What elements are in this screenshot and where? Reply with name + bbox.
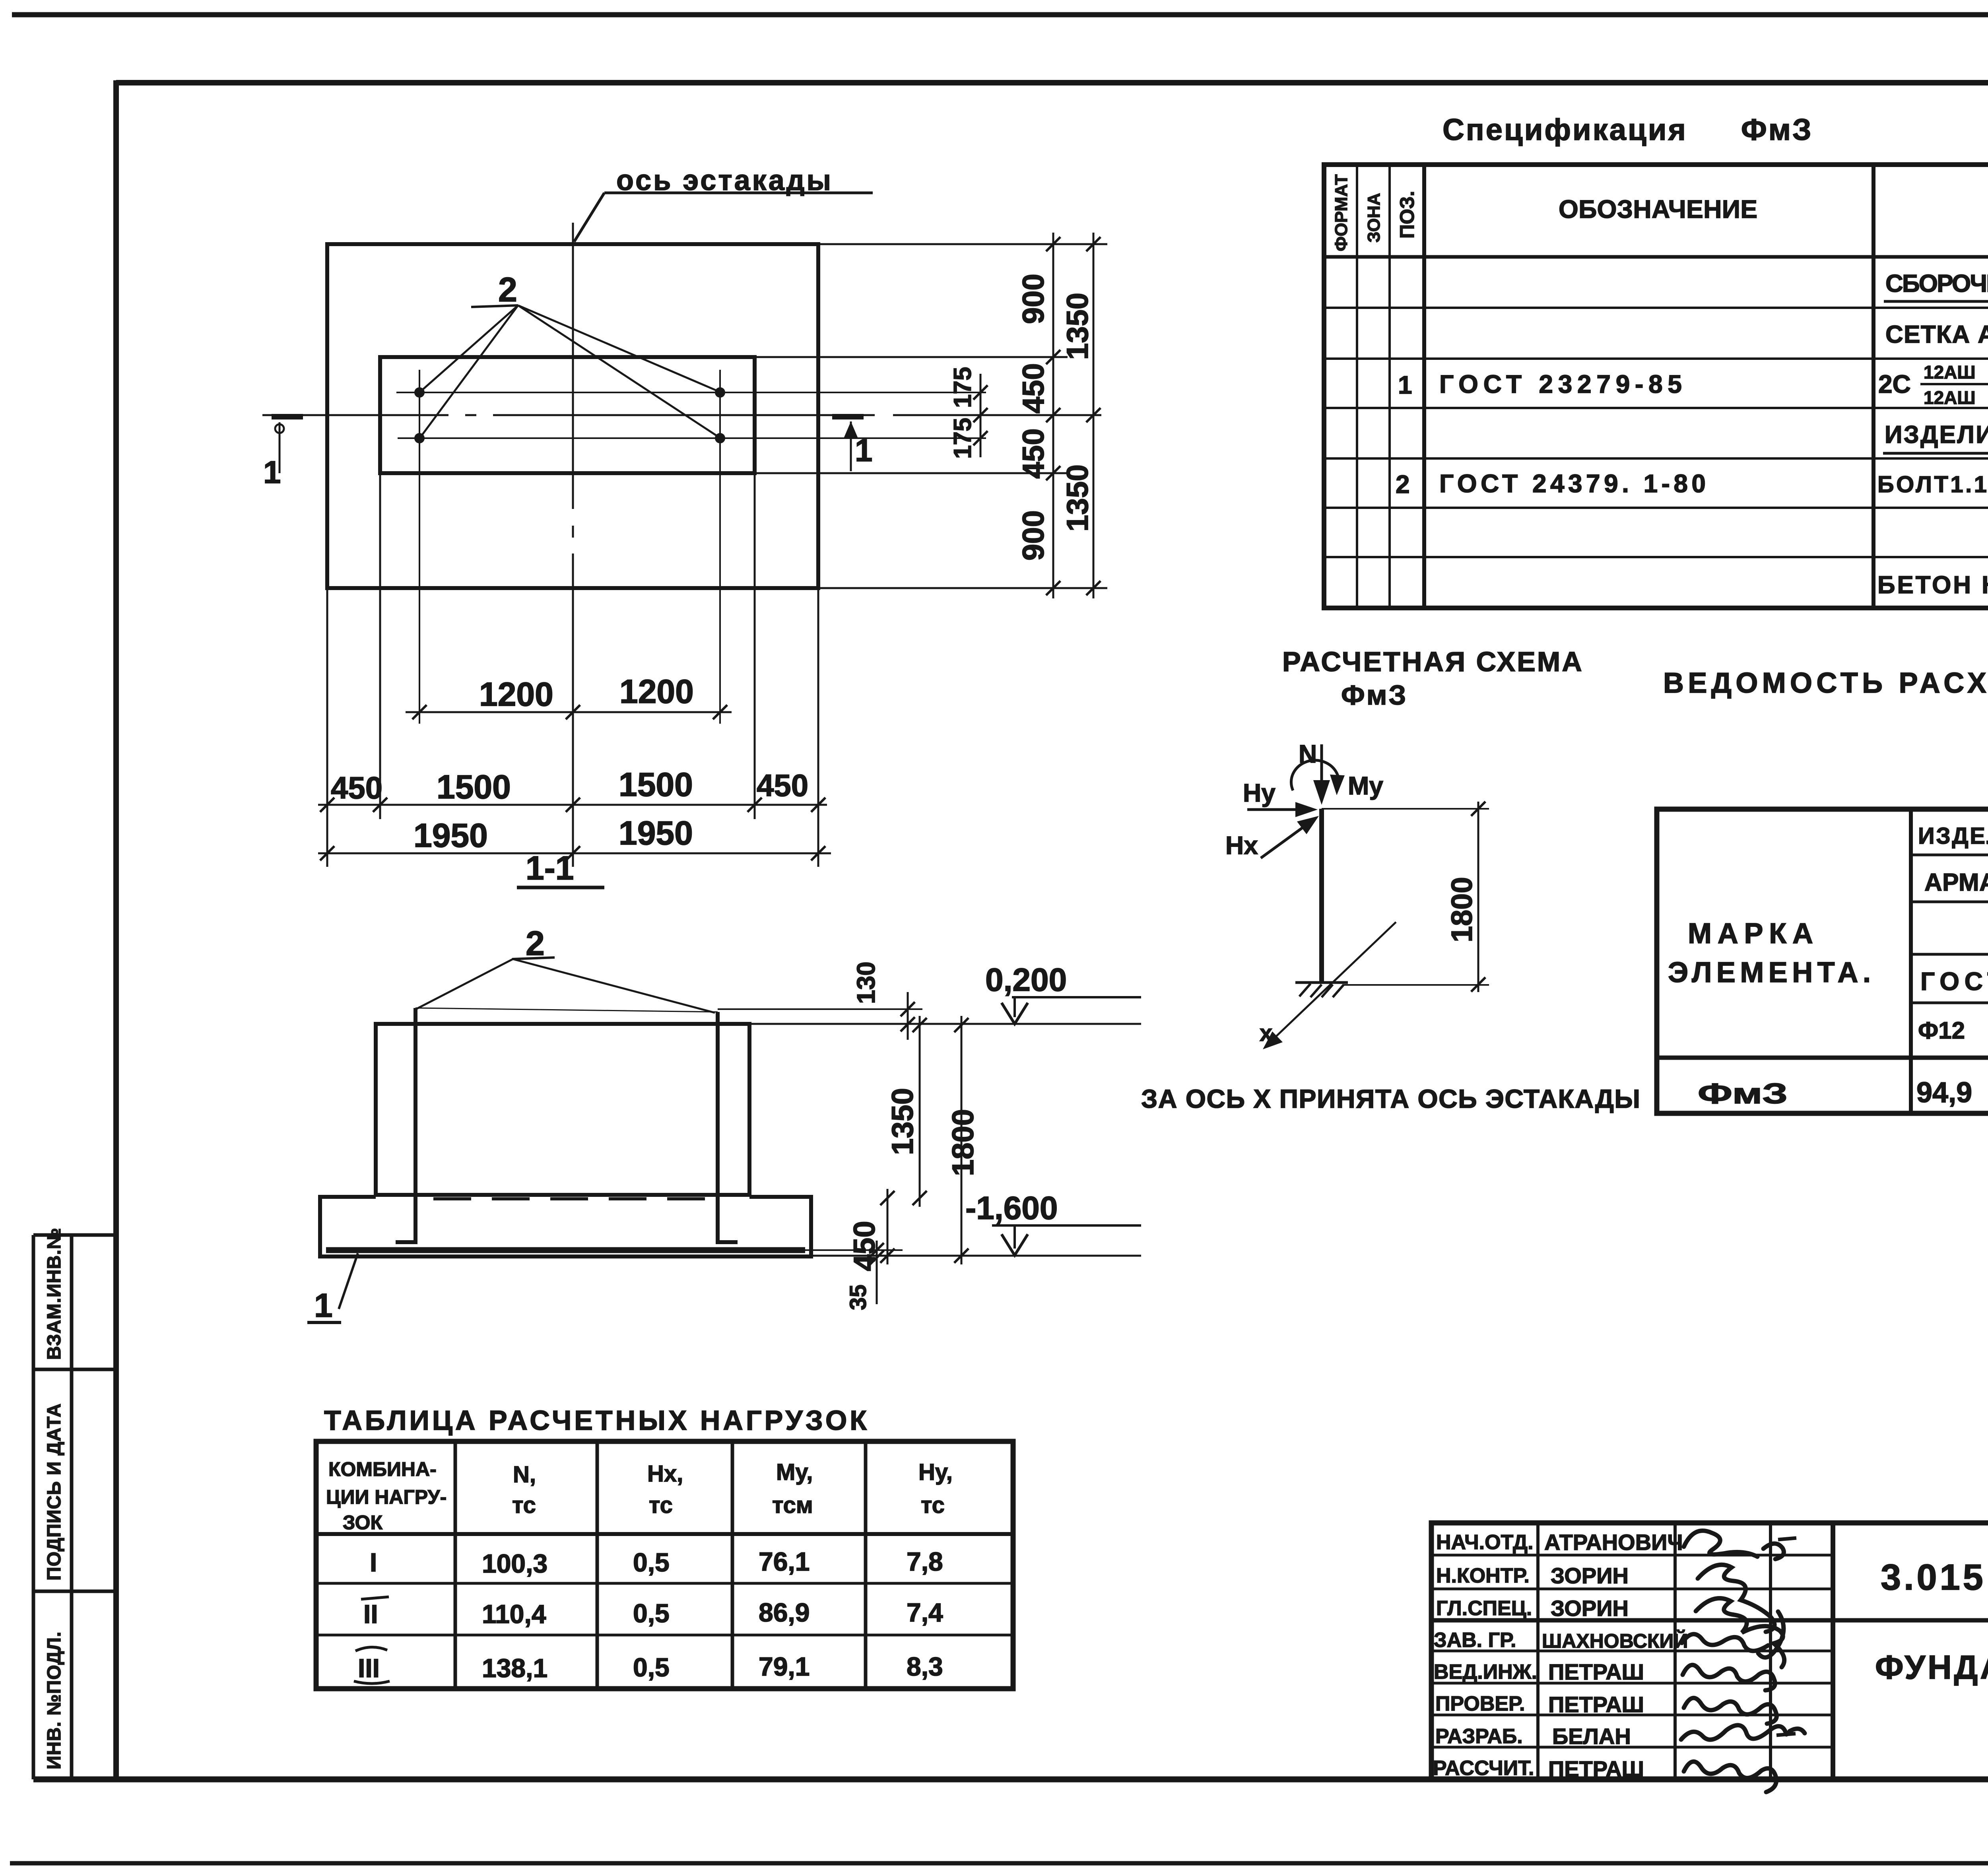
column head: Марка элемента <box>1668 918 1871 988</box>
svg-text:ОБОЗНАЧЕНИЕ: ОБОЗНАЧЕНИЕ <box>1559 195 1757 223</box>
svg-text:ЗОРИН: ЗОРИН <box>1551 1563 1629 1588</box>
svg-text:НАЧ.ОТД.: НАЧ.ОТД. <box>1436 1531 1534 1554</box>
svg-text:1: 1 <box>263 454 281 490</box>
column (cantilever) <box>1319 809 1324 983</box>
svg-text:ТАБЛИЦА РАСЧЕТНЫХ НАГРУЗОК: ТАБЛИЦА РАСЧЕТНЫХ НАГРУЗОК <box>324 1405 867 1436</box>
svg-text:ВЕД.ИНЖ.: ВЕД.ИНЖ. <box>1434 1660 1537 1684</box>
dim 1350 (section) <box>919 1016 921 1207</box>
force Ну arrow <box>1247 808 1306 811</box>
svg-text:РАСЧЕТНАЯ СХЕМА: РАСЧЕТНАЯ СХЕМА <box>1282 646 1584 677</box>
svg-text:тс: тс <box>649 1492 673 1518</box>
svg-text:ПЕТРАШ: ПЕТРАШ <box>1548 1692 1644 1717</box>
dash marks in date column <box>1778 1538 1796 1540</box>
x axis diagonal <box>1268 922 1396 1044</box>
svg-text:Н.КОНТР.: Н.КОНТР. <box>1436 1564 1530 1587</box>
svg-text:450: 450 <box>757 768 808 803</box>
svg-text:ПОДПИСЬ И ДАТА: ПОДПИСЬ И ДАТА <box>44 1403 65 1581</box>
right side extension lines <box>818 243 1107 245</box>
svg-text:ФмЗ: ФмЗ <box>1698 1078 1788 1110</box>
svg-text:I: I <box>370 1548 377 1577</box>
svg-text:12АШ: 12АШ <box>1924 362 1976 383</box>
svg-text:тсм: тсм <box>772 1492 813 1518</box>
thin line between bolt tops <box>415 1008 718 1012</box>
force Нх arrow <box>1261 825 1306 858</box>
svg-text:1350: 1350 <box>886 1088 920 1155</box>
svg-text:ВЗАМ.ИНВ.№: ВЗАМ.ИНВ.№ <box>44 1227 65 1360</box>
svg-text:0,5: 0,5 <box>633 1653 670 1682</box>
dim line 450 1500 1500 450 <box>318 804 827 806</box>
row: poz 2 ГОСТ 24379.1-80 <box>1396 468 1988 499</box>
svg-text:ШАХНОВСКИЙ: ШАХНОВСКИЙ <box>1542 1629 1688 1652</box>
svg-text:8,3: 8,3 <box>907 1652 943 1681</box>
horizontal lines header <box>1911 854 1988 856</box>
fixed support hatching <box>1295 981 1348 984</box>
dim 1800 scheme <box>1322 808 1489 810</box>
svg-text:1: 1 <box>1398 371 1412 399</box>
svg-text:Нх: Нх <box>1225 831 1258 860</box>
anchor bolt left <box>396 1008 415 1242</box>
svg-text:1800: 1800 <box>1445 877 1478 942</box>
rotated dim texts right side <box>949 274 1095 561</box>
svg-text:1500: 1500 <box>619 766 693 803</box>
data row <box>1698 1075 1988 1110</box>
svg-text:450: 450 <box>331 770 382 805</box>
horizontal center line <box>262 414 1101 416</box>
signature block names <box>1542 1530 1688 1781</box>
svg-text:7,8: 7,8 <box>907 1547 943 1576</box>
dim 130 <box>718 1008 922 1010</box>
svg-text:II: II <box>363 1599 378 1629</box>
svg-text:1350: 1350 <box>1061 464 1095 532</box>
svg-text:450: 450 <box>1017 363 1050 414</box>
row: poz 1 ГОСТ 23279-85 <box>1398 362 1988 408</box>
pedestal outline <box>376 1024 749 1195</box>
svg-text:ЗОРИН: ЗОРИН <box>1551 1596 1629 1621</box>
svg-text:110,4: 110,4 <box>482 1599 546 1629</box>
svg-text:1950: 1950 <box>619 814 693 852</box>
svg-text:1350: 1350 <box>1061 293 1095 360</box>
force N arrow <box>1320 744 1323 785</box>
svg-text:ИЗДЕЛИЕ ЗАКЛАДНОЕ: ИЗДЕЛИЕ ЗАКЛАДНОЕ <box>1885 421 1988 449</box>
dim line 1200+1200 <box>406 711 732 713</box>
svg-text:СЕТКА АРМАТУРНАЯ: СЕТКА АРМАТУРНАЯ <box>1885 321 1988 348</box>
row labels <box>358 1548 380 1683</box>
dashed level line inside footing <box>433 1197 712 1200</box>
main vertical dividers <box>1909 809 1913 1113</box>
svg-text:ИЗДЕЛИЯ АРМАТУРНЫЕ: ИЗДЕЛИЯ АРМАТУРНЫЕ <box>1918 823 1988 849</box>
svg-text:Нх,: Нх, <box>647 1461 683 1487</box>
upper bolt row line <box>396 392 986 393</box>
svg-text:Му: Му <box>1348 771 1383 800</box>
svg-text:ФОРМАТ: ФОРМАТ <box>1332 174 1351 251</box>
svg-text:МАРКА: МАРКА <box>1688 918 1813 950</box>
load table grid <box>316 1441 1013 1689</box>
spec table outer border <box>1324 165 1988 608</box>
vertical center line (ось эстакады) <box>572 223 574 867</box>
dim line 1950+1950 <box>318 852 831 854</box>
svg-text:1950: 1950 <box>414 817 488 854</box>
header rotated texts <box>1332 174 1418 251</box>
footing outline (plan outer rectangle) <box>327 244 818 588</box>
svg-text:РАЗРАБ.: РАЗРАБ. <box>1435 1725 1523 1748</box>
svg-text:1: 1 <box>314 1287 333 1324</box>
svg-text:2: 2 <box>498 271 517 309</box>
svg-text:БЕЛАН: БЕЛАН <box>1552 1724 1631 1749</box>
svg-text:III: III <box>358 1653 380 1683</box>
left bolt axis <box>419 370 420 724</box>
handwritten signatures <box>1681 1531 1805 1792</box>
svg-text:ЭЛЕМЕНТА.: ЭЛЕМЕНТА. <box>1668 957 1871 988</box>
svg-text:175: 175 <box>949 367 977 408</box>
anchor bolt right <box>718 1012 738 1242</box>
svg-text:Спецификация ФмЗ: Спецификация ФмЗ <box>1442 113 1813 147</box>
left margin stamp boxes <box>33 1235 116 1779</box>
svg-text:3.015.2 - 15.4 - 3: 3.015.2 - 15.4 - 3 <box>1881 1557 1988 1598</box>
svg-text:ФУНДАМЕНТ ФмЗ: ФУНДАМЕНТ ФмЗ <box>1875 1649 1988 1686</box>
signature area row lines <box>1431 1555 1833 1747</box>
right bolt axis <box>719 370 721 724</box>
bottom extension lines <box>326 588 328 867</box>
svg-text:ГЛ.СПЕЦ.: ГЛ.СПЕЦ. <box>1436 1597 1532 1620</box>
svg-text:1800: 1800 <box>946 1109 980 1176</box>
header texts <box>1559 194 1988 223</box>
svg-text:ЦИИ НАГРУ-: ЦИИ НАГРУ- <box>326 1486 447 1508</box>
svg-text:900: 900 <box>1017 274 1050 324</box>
svg-text:Ф12: Ф12 <box>1918 1017 1965 1044</box>
svg-text:ПРОВЕР.: ПРОВЕР. <box>1435 1692 1525 1715</box>
svg-text:СБОРОЧНЫЕ ЕДИНИЦЫ: СБОРОЧНЫЕ ЕДИНИЦЫ <box>1885 270 1988 297</box>
svg-text:138,1: 138,1 <box>482 1653 547 1683</box>
lower bolt row line <box>398 437 986 439</box>
svg-text:ВЕДОМОСТЬ РАСХОДА СТАЛИ НА ЭЛЕ: ВЕДОМОСТЬ РАСХОДА СТАЛИ НА ЭЛЕМЕНТ, КГ <box>1663 667 1988 699</box>
svg-text:130: 130 <box>852 961 880 1004</box>
rebar mesh (item 1) <box>326 1247 805 1253</box>
svg-text:0,5: 0,5 <box>633 1548 670 1577</box>
numeral II overbar <box>361 1597 389 1599</box>
dim line 900/450/450/900 <box>1052 233 1054 598</box>
svg-text:ИНВ. №ПОДЛ.: ИНВ. №ПОДЛ. <box>44 1631 65 1769</box>
footing outline <box>320 1197 811 1256</box>
svg-text:79,1: 79,1 <box>759 1652 810 1681</box>
bottom dim texts <box>331 673 808 854</box>
svg-text:175: 175 <box>949 418 977 459</box>
svg-text:450: 450 <box>1017 428 1050 479</box>
svg-text:2: 2 <box>1396 470 1410 499</box>
header texts <box>1918 823 1988 1044</box>
pedestal outline (plan inner rectangle) <box>380 357 755 473</box>
svg-text:ПЕТРАШ: ПЕТРАШ <box>1548 1756 1644 1781</box>
svg-text:АТРАНОВИЧ: АТРАНОВИЧ <box>1544 1530 1683 1555</box>
svg-text:тс: тс <box>512 1492 536 1518</box>
svg-text:1200: 1200 <box>619 673 694 710</box>
svg-text:Ну,: Ну, <box>918 1459 953 1485</box>
svg-text:ЗОК: ЗОК <box>343 1511 383 1534</box>
svg-text:ПЕТРАШ: ПЕТРАШ <box>1548 1659 1644 1684</box>
leader 2 rays to bolts <box>420 305 719 437</box>
svg-text:1-1: 1-1 <box>526 849 574 887</box>
steel table outer border <box>1657 809 1988 1113</box>
svg-text:РАССЧИТ.: РАССЧИТ. <box>1433 1757 1534 1780</box>
row: Бетон класса В15 <box>1877 566 1988 599</box>
svg-text:-1,600: -1,600 <box>965 1190 1058 1226</box>
svg-text:КОМБИНА-: КОМБИНА- <box>328 1458 437 1480</box>
svg-text:900: 900 <box>1017 510 1050 561</box>
horizontal lines <box>1324 255 1988 259</box>
svg-text:100,3: 100,3 <box>482 1549 547 1578</box>
svg-text:1500: 1500 <box>437 768 511 806</box>
signature area verticals <box>1536 1523 1540 1779</box>
section mark 1 left <box>272 414 303 419</box>
dim ticks bottom <box>320 705 825 860</box>
dim line 175/175 <box>980 374 982 457</box>
svg-text:ПОЗ.: ПОЗ. <box>1396 191 1418 239</box>
header texts <box>326 1458 953 1534</box>
vertical dividers <box>1356 165 1358 608</box>
dim 35 (mesh offset) <box>805 1249 903 1251</box>
svg-text:Му,: Му, <box>776 1459 813 1485</box>
svg-text:86,9: 86,9 <box>759 1598 810 1627</box>
title block outer border <box>1431 1523 1988 1779</box>
dim 1800 (section) <box>961 1016 963 1264</box>
svg-text:1200: 1200 <box>479 676 553 713</box>
svg-text:1: 1 <box>855 433 873 468</box>
moment Му arc <box>1291 760 1339 791</box>
anchor bolt dots <box>414 387 725 443</box>
svg-text:АРМАТУРА КЛАССА: АРМАТУРА КЛАССА <box>1924 869 1988 896</box>
numeral III marks <box>355 1647 387 1651</box>
dim 450 (section) <box>887 1189 889 1264</box>
svg-text:ЗОНА: ЗОНА <box>1364 193 1384 243</box>
signature block labels <box>1433 1531 1537 1780</box>
svg-text:х: х <box>1260 1020 1272 1046</box>
scan sheet bottom edge line <box>10 1861 1988 1866</box>
svg-text:2С: 2С <box>1878 370 1911 398</box>
leader line under ось эстакады <box>604 192 873 194</box>
dim line 1350/1350 <box>1093 233 1095 598</box>
svg-text:тс: тс <box>921 1492 945 1518</box>
svg-text:ЗАВ. ГР.: ЗАВ. ГР. <box>1434 1629 1516 1652</box>
svg-text:0,5: 0,5 <box>633 1598 670 1628</box>
svg-text:12АШ: 12АШ <box>1924 387 1976 408</box>
svg-text:N,: N, <box>513 1462 536 1488</box>
svg-text:ГОСТ 5781-82*: ГОСТ 5781-82* <box>1920 967 1988 996</box>
dim ticks right side <box>973 237 1101 595</box>
svg-text:Ну: Ну <box>1243 779 1276 807</box>
svg-text:ЗА ОСЬ Х ПРИНЯТА ОСЬ ЭСТАКАДЫ: ЗА ОСЬ Х ПРИНЯТА ОСЬ ЭСТАКАДЫ <box>1141 1084 1640 1113</box>
leader 1 label <box>339 1253 358 1309</box>
svg-text:ФмЗ: ФмЗ <box>1341 680 1408 711</box>
svg-text:35: 35 <box>845 1284 871 1310</box>
svg-text:94,9: 94,9 <box>1916 1077 1972 1109</box>
data values <box>482 1547 943 1683</box>
svg-text:0,200: 0,200 <box>985 962 1067 998</box>
svg-text:7,4: 7,4 <box>907 1598 943 1627</box>
svg-text:76,1: 76,1 <box>759 1547 810 1576</box>
scan sheet top edge line <box>12 12 1988 17</box>
section mark 1 right <box>832 414 864 419</box>
